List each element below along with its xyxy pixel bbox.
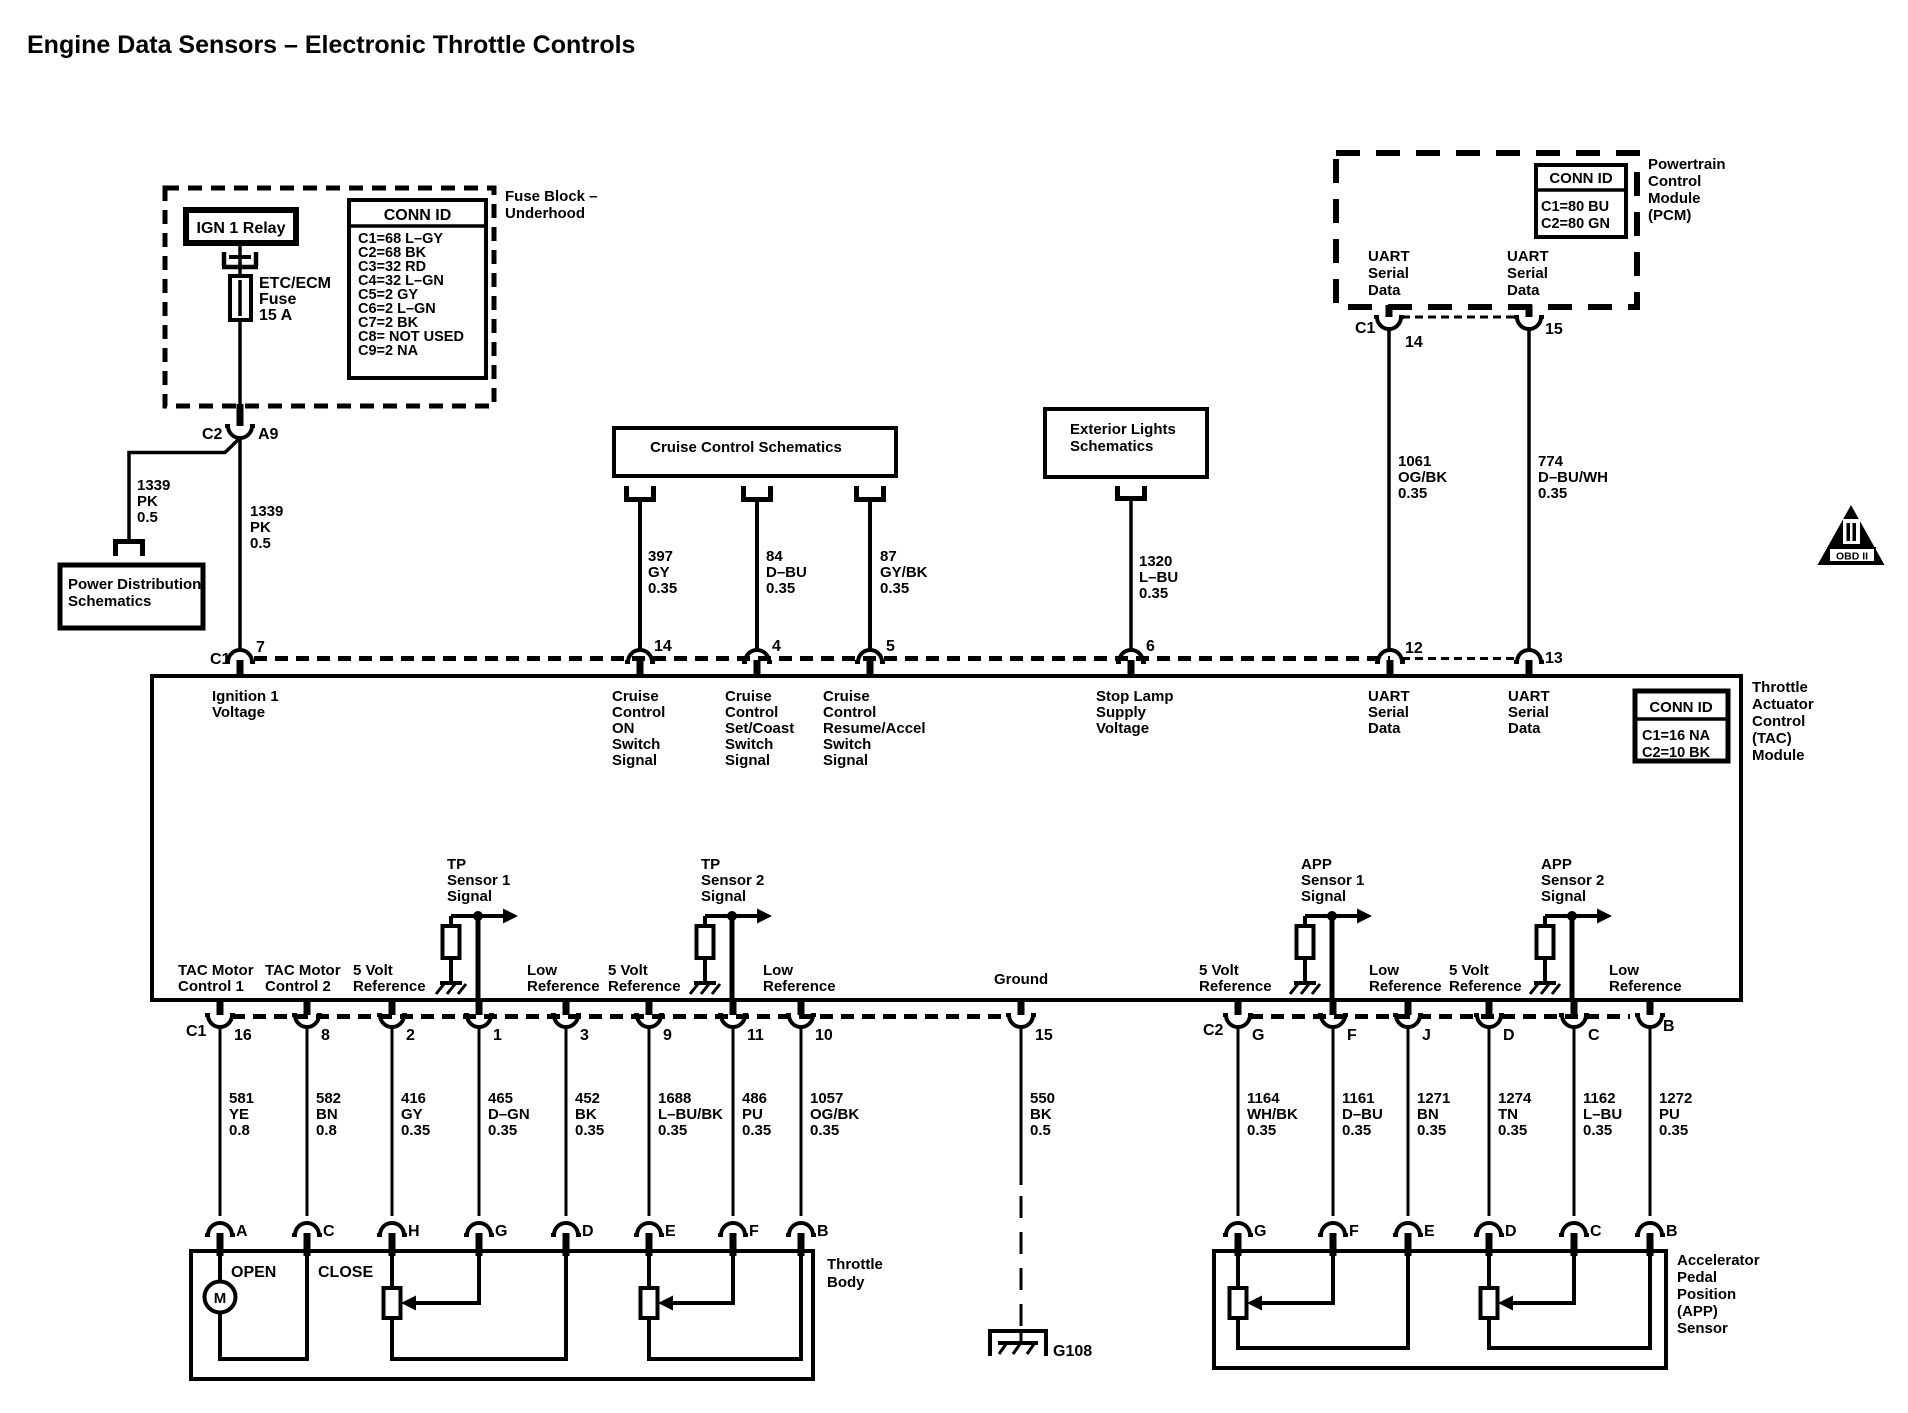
- TAC top connector pin 4: [742, 638, 781, 678]
- Throttle Body label: [827, 1256, 883, 1291]
- TAC bottom connector C2 pin B: [1635, 1000, 1675, 1035]
- TAC bottom connector C2 pin J: [1393, 1000, 1431, 1044]
- svg-text:UART: UART: [1368, 248, 1410, 265]
- wire label 1274 TN 0.35: [1498, 1090, 1532, 1139]
- svg-text:5 Volt: 5 Volt: [608, 962, 648, 979]
- svg-text:Control: Control: [612, 704, 665, 721]
- PCM connector pin 15: [1514, 305, 1563, 338]
- TAC pin label: Low Reference: [527, 962, 600, 995]
- svg-text:Actuator: Actuator: [1752, 696, 1814, 713]
- svg-text:582: 582: [316, 1090, 341, 1107]
- svg-text:L–BU: L–BU: [1583, 1106, 1622, 1123]
- TAC pin label: 5 Volt Reference: [1449, 962, 1522, 995]
- svg-text:0.35: 0.35: [766, 580, 795, 597]
- TP|Sensor 2|Signal label: [701, 856, 764, 905]
- wire 465 D–GN (pin 1 to throttle body G): [478, 1027, 481, 1216]
- svg-text:F: F: [1347, 1027, 1357, 1044]
- svg-text:Serial: Serial: [1507, 265, 1548, 282]
- component box: Throttle Body: [191, 1251, 813, 1379]
- svg-text:(TAC): (TAC): [1752, 730, 1792, 747]
- TAC bottom connector C1 pin 15 (ground): [1006, 1000, 1053, 1044]
- TAC pin label: Cruise Control Set/Coast Switch Signal: [725, 688, 794, 769]
- fuse value label: [259, 275, 331, 324]
- PCM signal label UART Serial Data (pin 15): [1507, 248, 1549, 299]
- svg-text:F: F: [749, 1223, 759, 1240]
- TP|Sensor 2|Signal internal resistor: [697, 916, 714, 981]
- wire: APP sensor 2 low side to pin B: [1489, 1254, 1650, 1348]
- svg-text:Throttle: Throttle: [827, 1256, 883, 1273]
- svg-text:1271: 1271: [1417, 1090, 1450, 1107]
- wire 1161 D–BU (pin F to APP sensor F): [1332, 1027, 1335, 1216]
- connector table CONN ID (fuse block): [349, 200, 486, 378]
- svg-text:0.35: 0.35: [1342, 1122, 1371, 1139]
- svg-text:0.8: 0.8: [316, 1122, 337, 1139]
- svg-text:YE: YE: [229, 1106, 249, 1123]
- dashed connector tie between PCM pins 14 and 15: [1402, 316, 1517, 319]
- TAC bottom connector C1 pin 2: [377, 1000, 415, 1044]
- TAC top connector pin 7: [210, 639, 265, 678]
- TAC bottom connector C1 pin 10: [786, 1000, 833, 1044]
- wire: branch to power distribution (diagonal+horizontal+vertical): [129, 438, 240, 539]
- TP|Sensor 1|Signal label: [447, 856, 510, 905]
- box: Power Distribution Schematics: [60, 565, 203, 628]
- throttle position sensor 1 potentiometer: [384, 1256, 401, 1318]
- svg-text:TN: TN: [1498, 1106, 1518, 1123]
- wire label 1057 OG/BK 0.35: [810, 1090, 859, 1139]
- svg-text:87: 87: [880, 548, 897, 565]
- svg-text:0.5: 0.5: [1030, 1122, 1051, 1139]
- throttle position sensor 2 potentiometer: [641, 1256, 658, 1318]
- TAC top connector pin 14: [625, 638, 672, 678]
- TAC pin label: TAC Motor Control 1: [178, 962, 254, 995]
- svg-text:C1: C1: [186, 1023, 207, 1040]
- svg-text:Control: Control: [1752, 713, 1805, 730]
- box: Exterior Lights Schematics: [1045, 409, 1207, 477]
- svg-text:1057: 1057: [810, 1090, 843, 1107]
- svg-text:Powertrain: Powertrain: [1648, 156, 1726, 173]
- component box: Accelerator Pedal Position (APP) Sensor: [1214, 1251, 1666, 1368]
- APP|Sensor 2|Signal label: [1541, 856, 1604, 905]
- svg-text:TP: TP: [447, 856, 466, 873]
- svg-text:0.35: 0.35: [1247, 1122, 1276, 1139]
- throttle body connector pin H: [377, 1223, 420, 1256]
- svg-text:BK: BK: [1030, 1106, 1052, 1123]
- svg-text:APP: APP: [1541, 856, 1572, 873]
- svg-text:0.35: 0.35: [810, 1122, 839, 1139]
- svg-text:9: 9: [663, 1027, 672, 1044]
- throttle body connector pin B: [786, 1223, 829, 1256]
- svg-text:G: G: [495, 1223, 507, 1240]
- svg-text:A: A: [236, 1223, 248, 1240]
- svg-text:397: 397: [648, 548, 673, 565]
- svg-text:CONN ID: CONN ID: [1649, 699, 1713, 716]
- wire 1162 L–BU (pin C to APP sensor C): [1573, 1027, 1576, 1216]
- wire label 1164 WH/BK 0.35: [1247, 1090, 1298, 1139]
- svg-text:5 Volt: 5 Volt: [353, 962, 393, 979]
- APP sensor 2 wiper arrow from pin C: [1498, 1256, 1574, 1311]
- TAC top connector pin 5: [855, 638, 895, 678]
- wire 452 BK (pin 3 to throttle body D): [565, 1027, 568, 1216]
- wire 774 D-BU/WH: PCM 15 to TAC 13: [1527, 329, 1531, 649]
- svg-text:0.35: 0.35: [401, 1122, 430, 1139]
- wire label 582 BN 0.8: [316, 1090, 341, 1139]
- TAC pin label: Stop Lamp Supply Voltage: [1096, 688, 1174, 737]
- svg-text:Control: Control: [1648, 173, 1701, 190]
- svg-text:Fuse Block –: Fuse Block –: [505, 188, 598, 205]
- TAC bottom connector C1 pin 8: [292, 1000, 330, 1044]
- svg-text:WH/BK: WH/BK: [1247, 1106, 1298, 1123]
- svg-text:0.5: 0.5: [250, 535, 271, 552]
- svg-text:PK: PK: [137, 493, 158, 510]
- wire 1688 L–BU/BK (pin 9 to throttle body E): [648, 1027, 651, 1216]
- svg-text:Cruise: Cruise: [823, 688, 870, 705]
- TP sensor 2 wiper arrow from pin F: [658, 1256, 733, 1311]
- svg-text:G: G: [1252, 1027, 1264, 1044]
- page link bracket to power distribution: [113, 539, 145, 544]
- fuse F: ETC/ECM Fuse 15 A: [230, 276, 251, 320]
- svg-text:E: E: [665, 1223, 676, 1240]
- svg-text:Exterior Lights: Exterior Lights: [1070, 421, 1176, 438]
- TAC top connector pin 6: [1116, 638, 1155, 678]
- PCM name label: [1648, 156, 1726, 224]
- wire: APP sensor 1 low side to pin E: [1238, 1254, 1408, 1348]
- svg-text:0.35: 0.35: [1398, 485, 1427, 502]
- wire label 1162 L–BU 0.35: [1583, 1090, 1622, 1139]
- svg-text:14: 14: [1405, 334, 1423, 351]
- svg-text:6: 6: [1146, 638, 1155, 655]
- svg-text:D: D: [582, 1223, 594, 1240]
- svg-text:8: 8: [321, 1027, 330, 1044]
- svg-text:PU: PU: [1659, 1106, 1680, 1123]
- svg-text:12: 12: [1405, 640, 1423, 657]
- svg-text:Accelerator: Accelerator: [1677, 1252, 1760, 1269]
- svg-text:OG/BK: OG/BK: [1398, 469, 1447, 486]
- OBD II marker triangle: [1818, 505, 1885, 565]
- svg-text:452: 452: [575, 1090, 600, 1107]
- wire label 397 GY 0.35: [648, 548, 677, 597]
- svg-text:Cruise: Cruise: [725, 688, 772, 705]
- PCM connector C1 pin 14: [1355, 305, 1423, 351]
- svg-text:Data: Data: [1368, 720, 1401, 737]
- APP|Sensor 1|Signal signal tap wire and arrow: [1305, 909, 1372, 924]
- svg-text:4: 4: [772, 638, 781, 655]
- svg-text:C1: C1: [210, 651, 231, 668]
- svg-text:774: 774: [1538, 453, 1564, 470]
- APP|Sensor 2|Signal ground hatch: [1534, 981, 1556, 985]
- wire 1164 WH/BK (pin G to APP sensor G): [1237, 1027, 1240, 1216]
- wire: motor return to pin C: [220, 1254, 307, 1359]
- wire: C2 A9 down to C1 pin 7: [238, 438, 242, 649]
- svg-text:13: 13: [1545, 650, 1563, 667]
- svg-text:OPEN: OPEN: [231, 1264, 276, 1281]
- svg-text:TP: TP: [701, 856, 720, 873]
- connector table CONN ID (PCM): [1536, 165, 1626, 237]
- svg-text:5: 5: [886, 638, 895, 655]
- page link bracket (cruise wire at x=757): [741, 486, 746, 500]
- svg-text:Reference: Reference: [1369, 978, 1442, 995]
- svg-text:84: 84: [766, 548, 783, 565]
- svg-text:416: 416: [401, 1090, 426, 1107]
- svg-text:Signal: Signal: [1541, 888, 1586, 905]
- svg-text:0.35: 0.35: [1498, 1122, 1527, 1139]
- svg-text:Control: Control: [725, 704, 778, 721]
- thin dashed tie between pins 12 and 13: [1402, 657, 1517, 660]
- wire label 452 BK 0.35: [575, 1090, 604, 1139]
- svg-text:Serial: Serial: [1508, 704, 1549, 721]
- svg-text:Sensor 1: Sensor 1: [447, 872, 510, 889]
- APP sensor connector pin B: [1635, 1223, 1678, 1256]
- svg-text:D–BU: D–BU: [766, 564, 807, 581]
- svg-text:UART: UART: [1368, 688, 1410, 705]
- svg-text:Signal: Signal: [612, 752, 657, 769]
- module: Throttle Actuator Control (TAC) box outline: [152, 676, 1741, 1000]
- svg-text:CLOSE: CLOSE: [318, 1264, 373, 1281]
- svg-text:0.5: 0.5: [137, 509, 158, 526]
- fuse block - underhood dashed enclosure: [165, 188, 494, 406]
- wire 87 GY/BK to pin 5: [868, 502, 872, 649]
- svg-text:C: C: [1590, 1223, 1602, 1240]
- svg-text:0.8: 0.8: [229, 1122, 250, 1139]
- svg-text:D: D: [1505, 1223, 1517, 1240]
- page link bracket (cruise wire at x=870): [854, 486, 859, 500]
- svg-text:Signal: Signal: [701, 888, 746, 905]
- APP|Sensor 2|Signal internal resistor: [1537, 916, 1554, 981]
- svg-text:1164: 1164: [1247, 1090, 1280, 1107]
- svg-text:OBD II: OBD II: [1836, 551, 1868, 563]
- wire: fuse to connector C2 A9: [238, 320, 242, 404]
- APP sensor connector pin E: [1393, 1223, 1435, 1256]
- throttle body connector pin A: [205, 1223, 248, 1256]
- svg-text:A9: A9: [258, 426, 279, 443]
- svg-text:CONN ID: CONN ID: [384, 207, 452, 224]
- svg-text:L–BU/BK: L–BU/BK: [658, 1106, 723, 1123]
- svg-text:1272: 1272: [1659, 1090, 1692, 1107]
- svg-text:Control: Control: [823, 704, 876, 721]
- connector C2 pin A9 (fuse block output): [202, 404, 279, 443]
- TAC bottom connector C2 pin G: [1223, 1000, 1264, 1044]
- svg-text:UART: UART: [1507, 248, 1549, 265]
- wire 550 BK solid segment: [1020, 1027, 1023, 1185]
- svg-text:1: 1: [493, 1027, 502, 1044]
- wire label 581 YE 0.8: [229, 1090, 254, 1139]
- TP sensor 1 wiper arrow from pin G: [401, 1256, 479, 1311]
- dashed harness bus along TAC top edge: [254, 656, 1390, 661]
- module: Powertrain Control Module dashed enclosure: [1336, 153, 1637, 307]
- APP|Sensor 2|Signal wire to bottom pin: [1570, 916, 1575, 1000]
- svg-text:14: 14: [654, 638, 672, 655]
- wire label 84 D-BU 0.35: [766, 548, 807, 597]
- svg-text:1161: 1161: [1342, 1090, 1375, 1107]
- TP|Sensor 1|Signal wire to bottom pin: [476, 916, 481, 1000]
- APP sensor 1 wiper arrow from pin F: [1247, 1256, 1333, 1311]
- svg-text:GY: GY: [401, 1106, 423, 1123]
- svg-text:Module: Module: [1752, 747, 1805, 764]
- svg-text:Low: Low: [527, 962, 557, 979]
- svg-text:C2=10 BK: C2=10 BK: [1642, 745, 1711, 761]
- svg-text:Serial: Serial: [1368, 265, 1409, 282]
- svg-text:C: C: [1588, 1027, 1600, 1044]
- TAC top connector pin 13: [1514, 650, 1563, 678]
- svg-text:Low: Low: [1609, 962, 1639, 979]
- wire 397 GY to pin 14: [638, 502, 642, 649]
- svg-text:Throttle: Throttle: [1752, 679, 1808, 696]
- wire label 1339 PK 0.5 (branch): [137, 477, 170, 526]
- wire label 774 D-BU/WH 0.35: [1538, 453, 1608, 502]
- TAC pin label: 5 Volt Reference: [608, 962, 681, 995]
- svg-text:Sensor 2: Sensor 2: [701, 872, 764, 889]
- svg-text:Pedal: Pedal: [1677, 1269, 1717, 1286]
- svg-text:Control 2: Control 2: [265, 978, 331, 995]
- svg-text:BN: BN: [1417, 1106, 1439, 1123]
- relay output terminal bracket: [222, 252, 258, 267]
- svg-text:1274: 1274: [1498, 1090, 1532, 1107]
- TAC bottom connector C2 pin C: [1559, 1000, 1600, 1044]
- wire 486 PU (pin 11 to throttle body F): [732, 1027, 735, 1216]
- svg-text:G108: G108: [1053, 1343, 1092, 1360]
- wire label 1061 OG/BK 0.35: [1398, 453, 1447, 502]
- svg-text:Sensor: Sensor: [1677, 1320, 1728, 1337]
- svg-text:C2: C2: [1203, 1022, 1224, 1039]
- svg-text:B: B: [817, 1223, 829, 1240]
- svg-text:TAC Motor: TAC Motor: [265, 962, 341, 979]
- svg-text:0.35: 0.35: [880, 580, 909, 597]
- APP sensor name label: [1677, 1252, 1760, 1337]
- svg-text:581: 581: [229, 1090, 254, 1107]
- svg-text:Resume/Accel: Resume/Accel: [823, 720, 926, 737]
- svg-text:0.35: 0.35: [1417, 1122, 1446, 1139]
- svg-text:IGN 1 Relay: IGN 1 Relay: [197, 220, 286, 237]
- svg-text:Fuse: Fuse: [259, 291, 296, 308]
- svg-text:D–BU/WH: D–BU/WH: [1538, 469, 1608, 486]
- APP sensor connector pin G: [1223, 1223, 1266, 1256]
- wire label 1161 D–BU 0.35: [1342, 1090, 1383, 1139]
- svg-text:0.35: 0.35: [1659, 1122, 1688, 1139]
- svg-text:Switch: Switch: [612, 736, 660, 753]
- fuse block label: [505, 188, 598, 222]
- svg-text:(PCM): (PCM): [1648, 207, 1691, 224]
- svg-text:APP: APP: [1301, 856, 1332, 873]
- wire 1061 OG/BK: PCM 14 to TAC 12: [1387, 329, 1391, 649]
- svg-text:Serial: Serial: [1368, 704, 1409, 721]
- wire label 1339 PK 0.5 (main): [250, 503, 283, 552]
- svg-text:Module: Module: [1648, 190, 1701, 207]
- svg-text:0.35: 0.35: [575, 1122, 604, 1139]
- svg-text:E: E: [1424, 1223, 1435, 1240]
- svg-text:Cruise: Cruise: [612, 688, 659, 705]
- svg-text:Schematics: Schematics: [68, 593, 151, 610]
- throttle motor M: [205, 1256, 236, 1313]
- svg-text:1061: 1061: [1398, 453, 1431, 470]
- svg-text:BN: BN: [316, 1106, 338, 1123]
- svg-text:B: B: [1666, 1223, 1678, 1240]
- throttle body connector pin C: [292, 1223, 335, 1256]
- TP|Sensor 1|Signal ground hatch: [440, 981, 462, 985]
- svg-text:550: 550: [1030, 1090, 1055, 1107]
- svg-text:Signal: Signal: [725, 752, 770, 769]
- svg-text:0.35: 0.35: [742, 1122, 771, 1139]
- TP|Sensor 1|Signal junction: [473, 911, 483, 921]
- svg-text:L–BU: L–BU: [1139, 569, 1178, 586]
- TAC top connector pin 12: [1375, 640, 1423, 678]
- svg-text:CONN ID: CONN ID: [1549, 170, 1613, 187]
- PCM signal label UART Serial Data (pin 14): [1368, 248, 1410, 299]
- TAC pin label: Low Reference: [1609, 962, 1682, 995]
- svg-text:0.35: 0.35: [658, 1122, 687, 1139]
- svg-text:OG/BK: OG/BK: [810, 1106, 859, 1123]
- svg-text:C1: C1: [1355, 320, 1376, 337]
- APP sensor connector pin D: [1474, 1223, 1517, 1256]
- TAC pin label: Low Reference: [763, 962, 836, 995]
- TAC pin label: Ignition 1 Voltage: [212, 688, 279, 721]
- wire 1057 OG/BK (pin 10 to throttle body B): [800, 1027, 803, 1216]
- svg-text:0.35: 0.35: [648, 580, 677, 597]
- TP|Sensor 2|Signal ground hatch: [694, 981, 716, 985]
- wire label 486 PU 0.35: [742, 1090, 771, 1139]
- TAC pin label: 5 Volt Reference: [353, 962, 426, 995]
- TAC name label: [1752, 679, 1814, 764]
- ground G108 symbol: [990, 1331, 1046, 1356]
- TAC pin label: UART Serial Data (pin 13): [1508, 688, 1550, 737]
- wire 416 GY (pin 2 to throttle body H): [391, 1027, 394, 1216]
- box: Cruise Control Schematics: [614, 428, 896, 476]
- svg-text:Schematics: Schematics: [1070, 438, 1153, 455]
- wire label 465 D–GN 0.35: [488, 1090, 530, 1139]
- svg-text:Underhood: Underhood: [505, 205, 585, 222]
- svg-text:J: J: [1422, 1027, 1431, 1044]
- svg-text:15: 15: [1545, 321, 1563, 338]
- throttle body connector pin D: [551, 1223, 594, 1256]
- svg-text:Stop Lamp: Stop Lamp: [1096, 688, 1174, 705]
- svg-text:C2=80 GN: C2=80 GN: [1541, 216, 1610, 232]
- svg-text:TAC Motor: TAC Motor: [178, 962, 254, 979]
- TAC bottom connector C2 pin D: [1474, 1000, 1515, 1044]
- svg-text:7: 7: [256, 639, 265, 656]
- wire 1271 BN (pin J to APP sensor E): [1407, 1027, 1410, 1216]
- wire label 1272 PU 0.35: [1659, 1090, 1692, 1139]
- svg-text:Control 1: Control 1: [178, 978, 244, 995]
- svg-text:Sensor 2: Sensor 2: [1541, 872, 1604, 889]
- TAC bottom connector C1 pin 16: [205, 1000, 252, 1044]
- TAC bottom connector C1 pin 1: [464, 1000, 502, 1044]
- svg-text:Reference: Reference: [763, 978, 836, 995]
- wire label 1271 BN 0.35: [1417, 1090, 1450, 1139]
- svg-text:465: 465: [488, 1090, 513, 1107]
- svg-text:GY: GY: [648, 564, 670, 581]
- APP|Sensor 1|Signal internal resistor: [1297, 916, 1314, 981]
- svg-text:Signal: Signal: [823, 752, 868, 769]
- svg-text:D–BU: D–BU: [1342, 1106, 1383, 1123]
- wire label 416 GY 0.35: [401, 1090, 430, 1139]
- TP|Sensor 1|Signal signal tap wire and arrow: [451, 909, 518, 924]
- svg-text:3: 3: [580, 1027, 589, 1044]
- svg-text:0.35: 0.35: [1583, 1122, 1612, 1139]
- svg-text:10: 10: [815, 1027, 833, 1044]
- svg-text:0.35: 0.35: [1139, 585, 1168, 602]
- TP|Sensor 2|Signal wire to bottom pin: [730, 916, 735, 1000]
- svg-text:Signal: Signal: [1301, 888, 1346, 905]
- APP sensor 1 potentiometer: [1230, 1256, 1247, 1318]
- svg-text:Data: Data: [1507, 282, 1540, 299]
- svg-text:GY/BK: GY/BK: [880, 564, 928, 581]
- wire: TP sensor 1 low side to pin D: [392, 1254, 566, 1359]
- svg-text:C1=80 BU: C1=80 BU: [1541, 199, 1609, 215]
- APP|Sensor 1|Signal ground hatch: [1294, 981, 1316, 985]
- wire label 1688 L–BU/BK 0.35: [658, 1090, 723, 1139]
- svg-text:B: B: [1663, 1018, 1675, 1035]
- svg-text:(APP): (APP): [1677, 1303, 1718, 1320]
- svg-text:D–GN: D–GN: [488, 1106, 530, 1123]
- APP sensor 2 potentiometer: [1481, 1256, 1498, 1318]
